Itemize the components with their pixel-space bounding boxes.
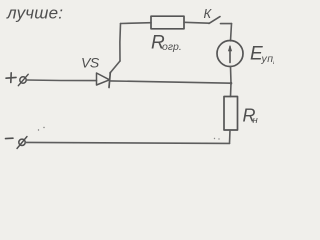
arrow inside source [229, 47, 231, 63]
wire: gate vertical riser [119, 24, 122, 62]
wire: junction to Rn [230, 83, 233, 96]
thyristor cathode bar [109, 73, 110, 88]
wire: cathode to junction [110, 81, 231, 83]
wire: top rail [26, 79, 96, 82]
svg-text:огр.: огр. [162, 41, 182, 53]
minus sign [6, 137, 14, 139]
resistor Rn (rectangle) [224, 97, 238, 131]
plus sign [6, 73, 16, 83]
resistor Rogr (rectangle) [151, 16, 184, 29]
wire: down to source [231, 24, 232, 41]
node A: gate corner wire (diagonal from thyristor gate) [110, 61, 120, 73]
svg-text:упр: упр [261, 53, 275, 65]
node junction dot [230, 82, 233, 85]
svg-text:лучше:: лучше: [6, 4, 63, 23]
switch K blade [209, 17, 220, 24]
terminal + (circle with slash) [20, 77, 26, 83]
wire: Rogr to switch [184, 21, 209, 24]
svg-text:К: К [204, 6, 213, 21]
wire: gate top horizontal to Rogr [121, 22, 152, 25]
speck marks [38, 129, 39, 130]
wire: source bottom to junction [230, 67, 233, 84]
wire: bottom rail [25, 142, 229, 143]
current source Eupr circle [217, 41, 243, 67]
thyristor VS triangle [97, 73, 110, 85]
svg-text:VS: VS [81, 55, 100, 71]
wire: Rn bottom to bottom rail [229, 130, 232, 143]
svg-text:н: н [253, 115, 259, 126]
terminal - (circle with slash) [19, 139, 25, 145]
wire: switch right segment [221, 23, 232, 25]
